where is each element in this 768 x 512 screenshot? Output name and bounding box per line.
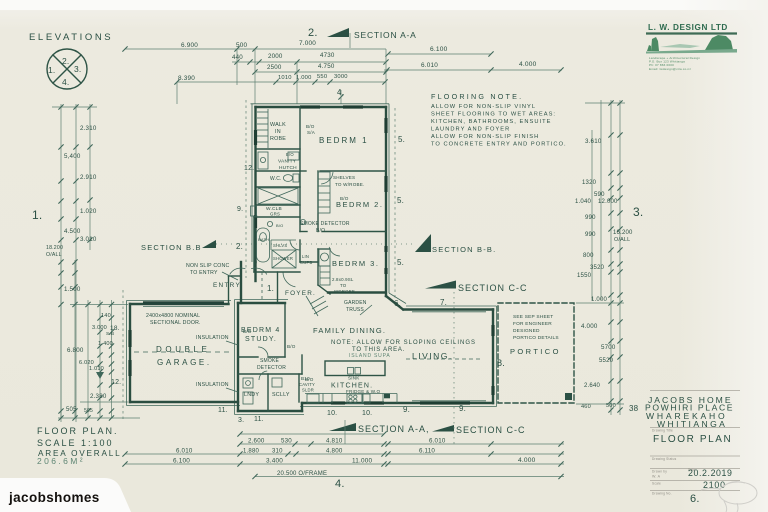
svg-text:4.: 4. — [62, 77, 70, 87]
svg-text:DOUBLE: DOUBLE — [156, 345, 211, 354]
svg-text:DETECTOR: DETECTOR — [257, 365, 286, 371]
svg-text:8.390: 8.390 — [178, 75, 195, 82]
svg-text:4.800: 4.800 — [326, 448, 343, 455]
svg-text:2500: 2500 — [267, 64, 282, 71]
svg-text:TO ENTRY: TO ENTRY — [190, 270, 218, 276]
svg-text:1320: 1320 — [582, 180, 597, 186]
svg-text:1.000: 1.000 — [296, 75, 312, 81]
svg-text:INSULATION: INSULATION — [196, 382, 229, 388]
svg-text:Drawn by: Drawn by — [652, 470, 667, 474]
svg-text:ALLOW FOR NON-SLIP VINYL: ALLOW FOR NON-SLIP VINYL — [431, 104, 536, 110]
svg-text:WALK: WALK — [270, 122, 286, 128]
svg-text:BEDRM 3.: BEDRM 3. — [332, 259, 379, 268]
svg-text:530: 530 — [281, 438, 292, 445]
svg-text:505: 505 — [66, 407, 77, 413]
svg-text:FLOOR PLAN.: FLOOR PLAN. — [37, 426, 119, 436]
svg-text:ALLOW FOR NON-SLIP FINISH: ALLOW FOR NON-SLIP FINISH — [431, 134, 539, 140]
svg-text:FAMILY DINING.: FAMILY DINING. — [313, 326, 386, 335]
svg-text:2.8x0.9SL: 2.8x0.9SL — [332, 277, 354, 282]
svg-text:4.500: 4.500 — [64, 228, 81, 235]
svg-text:4.: 4. — [335, 478, 345, 490]
svg-text:SMOKE: SMOKE — [260, 358, 280, 364]
svg-text:2.310: 2.310 — [80, 125, 97, 132]
svg-text:6.010: 6.010 — [429, 438, 446, 445]
svg-text:FLOOR PLAN: FLOOR PLAN — [653, 434, 732, 445]
svg-text:O/ALL: O/ALL — [614, 237, 630, 243]
svg-text:SEE SEP SHEET: SEE SEP SHEET — [513, 314, 553, 320]
svg-text:5.: 5. — [398, 135, 405, 144]
svg-text:9.: 9. — [237, 206, 243, 213]
svg-text:3.010: 3.010 — [80, 236, 97, 243]
svg-text:LNDY: LNDY — [244, 392, 259, 398]
svg-text:440: 440 — [232, 54, 243, 61]
svg-text:310: 310 — [272, 449, 283, 455]
svg-text:3.: 3. — [238, 417, 244, 424]
svg-text:1.000: 1.000 — [591, 297, 607, 303]
svg-text:990: 990 — [585, 215, 596, 221]
svg-text:2.910: 2.910 — [80, 174, 97, 181]
svg-text:12.: 12. — [111, 379, 121, 386]
svg-text:2.600: 2.600 — [248, 438, 265, 445]
svg-text:6.110: 6.110 — [419, 448, 435, 455]
svg-text:NOTE: ALLOW FOR SLOPING CEILIN: NOTE: ALLOW FOR SLOPING CEILINGS — [331, 340, 476, 346]
svg-text:2.: 2. — [308, 27, 318, 39]
svg-text:W. A: W. A — [652, 475, 661, 479]
svg-text:3.610: 3.610 — [585, 138, 602, 145]
svg-text:38: 38 — [629, 404, 639, 413]
svg-text:18.200: 18.200 — [46, 245, 63, 251]
svg-text:1550: 1550 — [577, 273, 592, 279]
svg-text:6.: 6. — [690, 493, 700, 505]
svg-text:3000: 3000 — [334, 74, 348, 80]
svg-text:INSULATION: INSULATION — [196, 335, 229, 341]
svg-text:W.C.: W.C. — [270, 176, 282, 182]
svg-text:B/O: B/O — [276, 223, 284, 228]
svg-text:SECTION B-B.: SECTION B-B. — [432, 245, 496, 254]
svg-text:WHITIANGA: WHITIANGA — [657, 419, 727, 429]
svg-text:9.: 9. — [459, 404, 466, 413]
svg-text:SHLVS: SHLVS — [273, 243, 287, 248]
svg-text:20.2.2019: 20.2.2019 — [688, 468, 733, 478]
svg-text:Scale: Scale — [652, 482, 661, 486]
svg-text:990: 990 — [585, 232, 596, 238]
svg-text:LIVING.: LIVING. — [412, 351, 453, 361]
svg-text:7.000: 7.000 — [299, 40, 316, 47]
svg-text:5.: 5. — [397, 196, 404, 205]
svg-text:5.: 5. — [397, 258, 404, 267]
svg-text:500: 500 — [236, 42, 248, 49]
svg-text:12.000: 12.000 — [598, 199, 618, 205]
svg-text:1.400: 1.400 — [98, 341, 113, 347]
svg-text:BEDRM 1: BEDRM 1 — [319, 136, 369, 145]
svg-text:SECTION C-C: SECTION C-C — [458, 283, 528, 293]
svg-text:1.500: 1.500 — [64, 286, 81, 293]
svg-text:SHELVES: SHELVES — [333, 175, 355, 180]
svg-text:SHEET FLOORING TO WET AREAS:: SHEET FLOORING TO WET AREAS: — [431, 112, 556, 118]
svg-text:1.020: 1.020 — [80, 208, 97, 215]
svg-text:BATH: BATH — [258, 237, 269, 242]
svg-text:PORTICO: PORTICO — [510, 347, 561, 356]
svg-text:6.010: 6.010 — [176, 448, 193, 455]
svg-text:TO CONCRETE ENTRY AND PORTICO.: TO CONCRETE ENTRY AND PORTICO. — [431, 142, 567, 148]
svg-text:5520: 5520 — [599, 358, 614, 364]
svg-text:TO: TO — [340, 283, 347, 288]
svg-text:ROBE: ROBE — [270, 136, 286, 142]
svg-text:CUPB: CUPB — [300, 260, 312, 265]
svg-text:IN: IN — [275, 129, 281, 135]
svg-text:TRUSS: TRUSS — [346, 307, 364, 313]
svg-text:3.400: 3.400 — [266, 458, 283, 465]
svg-text:Drawing Status: Drawing Status — [652, 457, 677, 461]
svg-text:550: 550 — [317, 74, 327, 80]
svg-text:B/O: B/O — [287, 344, 296, 349]
svg-text:3.: 3. — [633, 205, 643, 219]
svg-text:2.: 2. — [236, 242, 243, 251]
svg-text:SCLLY: SCLLY — [272, 392, 290, 398]
svg-text:206.6M²: 206.6M² — [37, 456, 85, 466]
svg-text:B/O: B/O — [286, 152, 294, 157]
svg-text:140: 140 — [101, 313, 111, 319]
svg-text:11.: 11. — [254, 416, 264, 423]
svg-text:4.810: 4.810 — [326, 438, 343, 445]
svg-text:Drawing No.: Drawing No. — [652, 492, 672, 496]
svg-text:6.900: 6.900 — [181, 42, 198, 49]
svg-text:460: 460 — [581, 404, 591, 410]
svg-text:1.880: 1.880 — [243, 449, 259, 455]
svg-text:ENTRY: ENTRY — [213, 282, 241, 289]
svg-text:11.000: 11.000 — [352, 458, 373, 465]
svg-text:SINK: SINK — [348, 376, 360, 381]
svg-text:BEDRM 4: BEDRM 4 — [241, 327, 281, 334]
svg-text:ELEVATIONS: ELEVATIONS — [29, 32, 113, 43]
svg-text:FOYER.: FOYER. — [285, 290, 316, 297]
svg-text:16.200: 16.200 — [613, 230, 633, 236]
svg-text:SECTIONAL DOOR.: SECTIONAL DOOR. — [150, 320, 201, 326]
svg-text:1.010: 1.010 — [89, 366, 104, 372]
svg-text:4.750: 4.750 — [318, 63, 335, 70]
svg-text:NON SLIP CONC: NON SLIP CONC — [186, 263, 229, 269]
svg-text:SCALE 1:100: SCALE 1:100 — [37, 438, 114, 448]
svg-text:DESIGNED: DESIGNED — [513, 328, 540, 334]
svg-text:11.: 11. — [218, 407, 228, 414]
svg-text:GARAGE.: GARAGE. — [157, 358, 212, 367]
svg-text:1.: 1. — [48, 65, 56, 75]
svg-text:SECTION C-C: SECTION C-C — [456, 425, 526, 435]
svg-text:800: 800 — [583, 253, 594, 259]
svg-text:6.800: 6.800 — [67, 347, 84, 354]
svg-text:590: 590 — [594, 192, 605, 198]
svg-text:SECTION A-A,: SECTION A-A, — [358, 424, 430, 434]
svg-text:SECTION B.B: SECTION B.B — [141, 243, 202, 252]
svg-text:1.040: 1.040 — [575, 199, 591, 205]
svg-text:HUTCH: HUTCH — [279, 165, 297, 171]
svg-text:L. W. DESIGN LTD: L. W. DESIGN LTD — [648, 23, 728, 32]
svg-text:ISLAND SUPA: ISLAND SUPA — [349, 353, 391, 359]
svg-text:4.000: 4.000 — [581, 323, 598, 330]
svg-text:10.: 10. — [327, 410, 337, 417]
svg-text:1010: 1010 — [278, 75, 292, 81]
svg-text:505: 505 — [84, 408, 93, 414]
svg-text:FRIDGE & W.O: FRIDGE & W.O — [346, 389, 381, 394]
svg-text:1.: 1. — [32, 208, 42, 222]
svg-text:2000: 2000 — [268, 53, 283, 60]
svg-text:5700: 5700 — [601, 344, 616, 351]
svg-text:6.100: 6.100 — [173, 458, 190, 465]
svg-text:TO W/ROBE.: TO W/ROBE. — [335, 182, 364, 187]
svg-text:2400x4800 NOMINAL: 2400x4800 NOMINAL — [146, 313, 200, 319]
svg-text:6.010: 6.010 — [421, 62, 438, 69]
svg-text:GARDEN: GARDEN — [344, 300, 367, 306]
svg-text:BEDRM 2.: BEDRM 2. — [336, 200, 383, 209]
svg-text:FOR ENGINEER: FOR ENGINEER — [513, 321, 552, 327]
svg-text:2.640: 2.640 — [584, 383, 600, 389]
svg-text:SECTION A-A: SECTION A-A — [354, 30, 417, 40]
svg-text:2.380: 2.380 — [90, 393, 107, 400]
svg-text:2.: 2. — [62, 56, 70, 66]
svg-text:Drawing Title: Drawing Title — [652, 429, 673, 433]
svg-text:4.000: 4.000 — [519, 61, 537, 68]
svg-text:SHOWER: SHOWER — [273, 256, 293, 261]
svg-text:FLOORING NOTE.: FLOORING NOTE. — [431, 92, 523, 101]
svg-text:18.: 18. — [110, 325, 120, 332]
svg-text:3.: 3. — [74, 64, 82, 74]
svg-text:jacobshomes: jacobshomes — [8, 490, 100, 505]
svg-text:B10: B10 — [301, 376, 310, 381]
svg-text:4730: 4730 — [320, 52, 335, 59]
svg-text:Email: lwdesign@xtra.co.nz: Email: lwdesign@xtra.co.nz — [649, 67, 691, 71]
svg-text:SMOKE DETECTOR: SMOKE DETECTOR — [300, 221, 350, 227]
svg-text:1.: 1. — [267, 284, 274, 293]
svg-text:3.000: 3.000 — [92, 325, 107, 331]
svg-text:20.500 O/FRAME: 20.500 O/FRAME — [277, 471, 327, 477]
svg-text:VANITY: VANITY — [278, 159, 297, 165]
svg-text:O/ALL: O/ALL — [46, 252, 62, 258]
svg-text:12.: 12. — [244, 165, 254, 172]
svg-text:4.000: 4.000 — [518, 457, 536, 464]
svg-text:SLDR: SLDR — [302, 388, 314, 393]
svg-text:5,400: 5,400 — [64, 153, 81, 160]
svg-text:LAUNDRY AND FOYER: LAUNDRY AND FOYER — [431, 127, 510, 133]
svg-text:CAVITY: CAVITY — [299, 382, 315, 387]
svg-text:KITCHEN, BATHROOMS, ENSUITE: KITCHEN, BATHROOMS, ENSUITE — [431, 119, 552, 125]
svg-text:S/A: S/A — [307, 130, 316, 135]
svg-text:B/O: B/O — [306, 124, 315, 129]
svg-text:GRS: GRS — [270, 212, 280, 217]
svg-text:3520: 3520 — [590, 265, 605, 271]
svg-text:4.: 4. — [337, 88, 344, 97]
svg-text:STUDY.: STUDY. — [245, 336, 277, 343]
svg-text:6.100: 6.100 — [430, 46, 448, 53]
svg-text:10.: 10. — [362, 410, 372, 417]
svg-text:PORTICO DETAILS: PORTICO DETAILS — [513, 335, 559, 341]
svg-text:WDROBE.: WDROBE. — [334, 289, 356, 294]
svg-text:B/O: B/O — [316, 228, 325, 234]
svg-text:LIN: LIN — [302, 254, 309, 259]
